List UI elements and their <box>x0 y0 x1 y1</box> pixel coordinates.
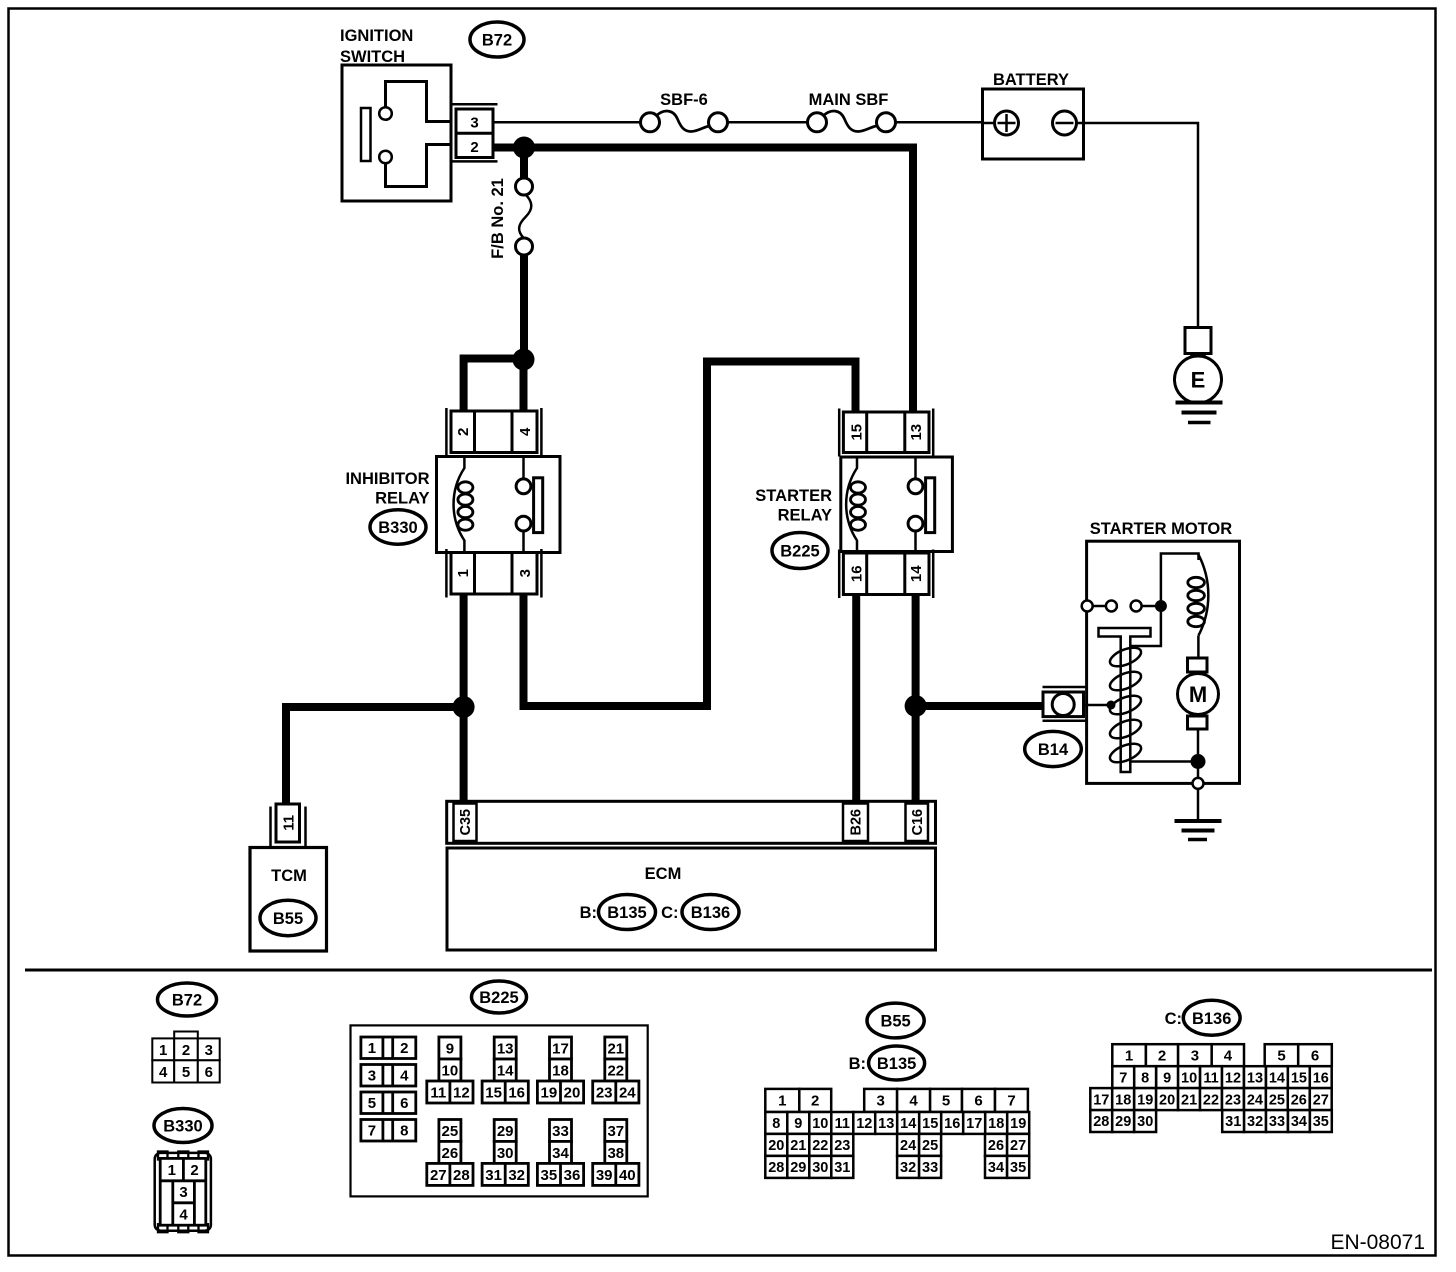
svg-text:STARTER: STARTER <box>755 487 832 505</box>
inhibitor relay contacts <box>516 457 531 553</box>
main thick bus from pin2 to starter relay pin 13 <box>493 148 913 413</box>
svg-text:33: 33 <box>552 1123 569 1140</box>
svg-text:5: 5 <box>1277 1047 1285 1064</box>
svg-text:33: 33 <box>922 1160 938 1176</box>
svg-text:EN-08071: EN-08071 <box>1330 1231 1425 1254</box>
connector label B55 <box>260 900 316 935</box>
starter motor solenoid coil <box>1188 555 1209 659</box>
svg-text:20: 20 <box>564 1084 581 1101</box>
wire node down to inhibitor pin 4 <box>520 360 528 413</box>
svg-text:1: 1 <box>159 1042 167 1059</box>
svg-text:12: 12 <box>856 1116 872 1132</box>
svg-text:20: 20 <box>1159 1092 1175 1108</box>
ignition switch SW1 box <box>342 65 451 201</box>
connector label B330 (pinout) <box>154 1109 212 1143</box>
svg-text:SWITCH: SWITCH <box>340 48 405 66</box>
svg-text:C:: C: <box>661 904 678 922</box>
battery BAT box <box>983 89 1084 159</box>
svg-text:18: 18 <box>1115 1092 1131 1108</box>
svg-text:28: 28 <box>1093 1114 1109 1130</box>
separator line <box>25 969 1432 972</box>
connector label B136 (pinout) <box>1165 1000 1241 1035</box>
svg-text:21: 21 <box>1181 1092 1197 1108</box>
svg-text:7: 7 <box>1007 1093 1015 1110</box>
wire F/B fuse down to node <box>520 255 528 353</box>
svg-text:3: 3 <box>877 1093 885 1110</box>
svg-text:STARTER MOTOR: STARTER MOTOR <box>1090 520 1232 538</box>
wire pin3 to SBF-6 <box>493 121 641 124</box>
svg-text:RELAY: RELAY <box>375 490 429 508</box>
svg-text:24: 24 <box>1247 1092 1263 1108</box>
svg-text:7: 7 <box>1119 1070 1127 1086</box>
svg-text:4: 4 <box>400 1068 409 1085</box>
svg-text:7: 7 <box>368 1123 376 1140</box>
starter motor contact circles <box>1082 601 1155 612</box>
svg-text:11: 11 <box>280 815 297 831</box>
svg-text:E: E <box>1191 368 1206 393</box>
inhibitor relay top connector box <box>451 411 537 453</box>
svg-text:34: 34 <box>988 1160 1004 1176</box>
node junction at pin2 bus <box>513 137 535 159</box>
TCM box <box>250 848 327 952</box>
connector B136 pinout <box>1090 1044 1332 1132</box>
svg-text:18: 18 <box>988 1116 1004 1132</box>
svg-text:11: 11 <box>430 1084 446 1101</box>
connector B14 box <box>1043 692 1084 717</box>
node at starter motor contact <box>1155 600 1167 612</box>
svg-text:SBF-6: SBF-6 <box>660 91 708 109</box>
svg-text:26: 26 <box>1291 1092 1307 1108</box>
svg-text:3: 3 <box>470 115 478 132</box>
fuse SBF-6 <box>641 111 728 132</box>
starter motor M1 box <box>1087 541 1240 783</box>
svg-text:3: 3 <box>368 1068 376 1085</box>
svg-text:24: 24 <box>619 1084 636 1101</box>
svg-text:14: 14 <box>1269 1070 1285 1086</box>
svg-text:29: 29 <box>790 1160 806 1176</box>
wire inhibitor pin1 down to node <box>460 594 468 706</box>
svg-text:4: 4 <box>159 1064 168 1081</box>
svg-text:25: 25 <box>1269 1092 1285 1108</box>
svg-text:19: 19 <box>541 1084 558 1101</box>
svg-text:32: 32 <box>900 1160 916 1176</box>
svg-text:1: 1 <box>455 569 472 577</box>
svg-text:ECM: ECM <box>645 865 682 883</box>
wire inhibitor pin3 to starter relay pin15 <box>524 362 856 707</box>
svg-text:37: 37 <box>607 1123 624 1140</box>
svg-text:IGNITION: IGNITION <box>340 27 413 45</box>
svg-text:21: 21 <box>607 1040 624 1057</box>
ECM box <box>447 848 936 950</box>
svg-text:TCM: TCM <box>271 867 307 885</box>
svg-text:F/B No. 21: F/B No. 21 <box>489 178 507 259</box>
svg-text:14: 14 <box>497 1062 514 1079</box>
svg-text:B136: B136 <box>1192 1010 1231 1028</box>
battery - terminal <box>1053 111 1077 135</box>
svg-text:13: 13 <box>497 1040 514 1057</box>
svg-text:26: 26 <box>442 1145 459 1162</box>
svg-text:B:: B: <box>580 904 597 922</box>
svg-text:4: 4 <box>179 1206 188 1223</box>
node junction above inhibitor relay <box>513 349 535 371</box>
starter relay bottom connector rails <box>839 550 933 599</box>
connector label B55 (pinout) <box>867 1003 924 1038</box>
svg-text:28: 28 <box>453 1167 470 1184</box>
svg-text:32: 32 <box>508 1167 525 1184</box>
wire contact node down to plunger <box>1130 606 1161 646</box>
svg-text:B135: B135 <box>607 904 646 922</box>
svg-text:3: 3 <box>205 1042 213 1059</box>
connector B135 pinout <box>765 1089 1029 1178</box>
TCM pin 11 box <box>276 804 300 842</box>
inhibitor relay bottom connector box <box>451 553 537 595</box>
svg-text:29: 29 <box>497 1123 514 1140</box>
starter relay coil <box>846 457 865 552</box>
svg-text:17: 17 <box>966 1116 982 1132</box>
wire SBF-6 to MAIN SBF <box>728 121 809 124</box>
svg-text:23: 23 <box>1225 1092 1241 1108</box>
svg-text:6: 6 <box>400 1095 408 1112</box>
svg-text:16: 16 <box>944 1116 960 1132</box>
svg-text:27: 27 <box>1010 1138 1026 1154</box>
svg-text:29: 29 <box>1115 1114 1131 1130</box>
starter relay top connector rails <box>839 409 933 457</box>
svg-text:5: 5 <box>942 1093 950 1110</box>
svg-text:11: 11 <box>835 1116 850 1132</box>
ignition switch rotor outline <box>386 82 452 122</box>
svg-text:16: 16 <box>848 565 865 582</box>
svg-text:9: 9 <box>446 1040 454 1057</box>
svg-text:8: 8 <box>772 1116 780 1132</box>
connector label B72 (pinout) <box>158 983 217 1016</box>
TCM connector rails <box>271 807 306 848</box>
svg-text:2: 2 <box>400 1040 408 1057</box>
starter relay top connector box <box>843 412 929 453</box>
svg-text:36: 36 <box>564 1167 581 1184</box>
svg-text:27: 27 <box>1313 1092 1329 1108</box>
starter relay contacts <box>908 457 923 552</box>
connector label B225 (pinout) <box>472 981 527 1013</box>
svg-text:1: 1 <box>778 1093 786 1110</box>
svg-text:B55: B55 <box>880 1013 910 1031</box>
svg-text:30: 30 <box>812 1160 828 1176</box>
node junction left <box>453 696 475 718</box>
svg-text:3: 3 <box>517 569 534 577</box>
inhibitor relay armature <box>534 478 543 533</box>
svg-text:2: 2 <box>182 1042 190 1059</box>
svg-text:1: 1 <box>368 1040 376 1057</box>
svg-text:4: 4 <box>1224 1047 1233 1064</box>
ignition switch key slot <box>361 108 371 161</box>
connector label B330 <box>370 510 426 544</box>
svg-text:9: 9 <box>1163 1070 1171 1086</box>
svg-text:32: 32 <box>1247 1114 1263 1130</box>
svg-text:B135: B135 <box>877 1055 916 1073</box>
connector B72 pin box <box>456 109 493 158</box>
svg-text:15: 15 <box>1291 1070 1307 1086</box>
ground E connector square <box>1185 328 1211 354</box>
wire node to TCM <box>286 707 470 805</box>
svg-text:B14: B14 <box>1038 741 1069 759</box>
wire node to B14 connector <box>916 702 1043 710</box>
inhibitor relay bottom connector rails <box>446 549 541 598</box>
wire B14 to solenoid <box>1084 704 1108 707</box>
svg-text:1: 1 <box>1125 1047 1133 1064</box>
svg-text:22: 22 <box>812 1138 828 1154</box>
starter relay K2 body <box>841 457 953 552</box>
connector B14 housing rails <box>1043 687 1086 721</box>
svg-text:B72: B72 <box>482 32 512 50</box>
svg-text:19: 19 <box>1010 1116 1026 1132</box>
svg-text:33: 33 <box>1269 1114 1285 1130</box>
connector B72 housing at switch <box>451 104 498 161</box>
svg-text:31: 31 <box>834 1160 850 1176</box>
svg-text:2: 2 <box>190 1162 198 1179</box>
svg-text:RELAY: RELAY <box>778 507 832 525</box>
svg-text:30: 30 <box>1137 1114 1153 1130</box>
svg-text:38: 38 <box>607 1145 624 1162</box>
svg-text:16: 16 <box>508 1084 525 1101</box>
svg-text:12: 12 <box>1225 1070 1241 1086</box>
svg-text:17: 17 <box>1093 1092 1109 1108</box>
svg-text:B136: B136 <box>691 904 730 922</box>
svg-text:MAIN SBF: MAIN SBF <box>809 91 889 109</box>
connector B225 pinout <box>351 1025 648 1196</box>
svg-text:B330: B330 <box>163 1118 202 1136</box>
fuse MAIN SBF <box>808 111 896 132</box>
wire junction down to fuse F/B <box>520 148 528 179</box>
svg-text:C:: C: <box>1165 1010 1182 1028</box>
svg-text:14: 14 <box>908 565 925 582</box>
inhibitor relay K1 body <box>437 457 561 553</box>
svg-text:2: 2 <box>1158 1047 1166 1064</box>
svg-text:31: 31 <box>1225 1114 1241 1130</box>
starter motor plunger T <box>1099 628 1151 772</box>
wire node down to ECM C35 <box>460 707 468 803</box>
svg-text:B26: B26 <box>849 809 865 836</box>
svg-text:M: M <box>1189 682 1207 707</box>
svg-text:6: 6 <box>205 1064 213 1081</box>
svg-text:10: 10 <box>442 1062 459 1079</box>
svg-text:3: 3 <box>1191 1047 1199 1064</box>
svg-text:25: 25 <box>922 1138 938 1154</box>
starter relay bottom connector box <box>843 553 929 595</box>
connector label B72 <box>470 22 524 57</box>
starter motor spring <box>1107 644 1143 670</box>
connector label B135 (pinout) <box>849 1046 925 1080</box>
svg-text:B72: B72 <box>172 992 202 1010</box>
ignition switch contact circles <box>379 107 392 120</box>
connector B72 pinout <box>152 1032 219 1083</box>
svg-text:19: 19 <box>1137 1092 1153 1108</box>
inhibitor relay coil <box>454 457 473 553</box>
svg-text:35: 35 <box>1010 1160 1026 1176</box>
svg-text:4: 4 <box>517 427 534 436</box>
ECM connector labels B:B135 C:B136 <box>580 895 739 930</box>
svg-text:35: 35 <box>1313 1114 1329 1130</box>
svg-text:21: 21 <box>790 1138 806 1154</box>
inhibitor relay top connector rails <box>446 408 541 456</box>
svg-text:C35: C35 <box>458 809 474 836</box>
svg-text:17: 17 <box>552 1040 569 1057</box>
wire starter pin16 down to ECM B26 <box>852 595 860 804</box>
svg-text:B225: B225 <box>780 543 819 561</box>
ECM connector strip <box>447 801 936 843</box>
svg-text:18: 18 <box>552 1062 569 1079</box>
wire motor to ground node <box>1197 729 1200 757</box>
svg-text:2: 2 <box>811 1093 819 1110</box>
svg-text:5: 5 <box>182 1064 190 1081</box>
svg-text:27: 27 <box>430 1167 447 1184</box>
svg-text:1: 1 <box>168 1162 176 1179</box>
svg-text:28: 28 <box>768 1160 784 1176</box>
svg-text:13: 13 <box>1247 1070 1263 1086</box>
wire branch to inhibitor pin 2 <box>464 359 524 413</box>
svg-text:INHIBITOR: INHIBITOR <box>345 470 429 488</box>
svg-text:26: 26 <box>988 1138 1004 1154</box>
connector B330 pinout <box>155 1152 211 1233</box>
svg-text:4: 4 <box>909 1093 918 1110</box>
svg-text:22: 22 <box>1203 1092 1219 1108</box>
ground E earth symbol <box>1176 401 1223 405</box>
svg-text:20: 20 <box>768 1138 784 1154</box>
svg-text:8: 8 <box>1141 1070 1149 1086</box>
starter motor ground symbol <box>1175 789 1222 840</box>
starter relay armature <box>926 478 935 533</box>
svg-text:30: 30 <box>497 1145 514 1162</box>
svg-text:6: 6 <box>1311 1047 1319 1064</box>
svg-text:5: 5 <box>368 1095 376 1112</box>
wire MAIN SBF to battery <box>895 121 983 124</box>
svg-text:B:: B: <box>849 1055 866 1073</box>
svg-text:11: 11 <box>1203 1070 1218 1086</box>
svg-text:2: 2 <box>455 428 472 436</box>
svg-text:6: 6 <box>974 1093 982 1110</box>
svg-text:31: 31 <box>485 1167 502 1184</box>
svg-text:16: 16 <box>1313 1070 1329 1086</box>
node junction right <box>905 695 927 717</box>
svg-text:25: 25 <box>442 1123 459 1140</box>
svg-text:34: 34 <box>552 1145 569 1162</box>
svg-text:22: 22 <box>607 1062 624 1079</box>
svg-text:C16: C16 <box>910 809 926 836</box>
ground E neck <box>1192 354 1205 359</box>
node at motor ground <box>1191 754 1206 769</box>
svg-text:13: 13 <box>908 424 925 441</box>
node at solenoid plunger <box>1107 701 1116 710</box>
svg-text:10: 10 <box>1181 1070 1197 1086</box>
motor M brushes and body <box>1178 658 1219 729</box>
wire battery to ground E <box>1077 123 1199 327</box>
svg-text:12: 12 <box>453 1084 470 1101</box>
svg-text:3: 3 <box>179 1184 187 1201</box>
svg-text:B330: B330 <box>378 519 417 537</box>
open terminal circle on box edge <box>1197 762 1200 779</box>
svg-text:24: 24 <box>900 1138 916 1154</box>
ground E circle <box>1175 356 1222 403</box>
wire plunger to ground node <box>1131 760 1199 763</box>
svg-text:39: 39 <box>596 1167 613 1184</box>
svg-text:14: 14 <box>900 1116 916 1132</box>
svg-text:15: 15 <box>922 1116 938 1132</box>
svg-text:15: 15 <box>485 1084 502 1101</box>
svg-text:8: 8 <box>400 1123 408 1140</box>
svg-text:35: 35 <box>541 1167 558 1184</box>
svg-text:34: 34 <box>1291 1114 1307 1130</box>
ECM pin C35 <box>454 804 477 842</box>
svg-text:10: 10 <box>812 1116 828 1132</box>
svg-text:BATTERY: BATTERY <box>993 71 1069 89</box>
svg-text:B225: B225 <box>479 989 518 1007</box>
wire starter pin14 down to ECM C16 <box>912 595 920 804</box>
svg-text:13: 13 <box>878 1116 894 1132</box>
connector label B14 <box>1025 731 1082 766</box>
svg-text:9: 9 <box>794 1116 802 1132</box>
fuse F/B No. 21 <box>516 178 533 255</box>
connector label B225 <box>772 533 828 569</box>
ECM pin B26 <box>843 804 868 842</box>
svg-text:15: 15 <box>848 424 865 441</box>
svg-text:23: 23 <box>596 1084 613 1101</box>
svg-text:40: 40 <box>619 1167 636 1184</box>
svg-text:B55: B55 <box>273 910 303 928</box>
svg-text:2: 2 <box>470 139 478 156</box>
battery + terminal <box>983 111 1019 135</box>
wire contact node to solenoid coil <box>1161 554 1199 607</box>
svg-text:23: 23 <box>834 1138 850 1154</box>
ECM pin C16 <box>906 804 929 842</box>
